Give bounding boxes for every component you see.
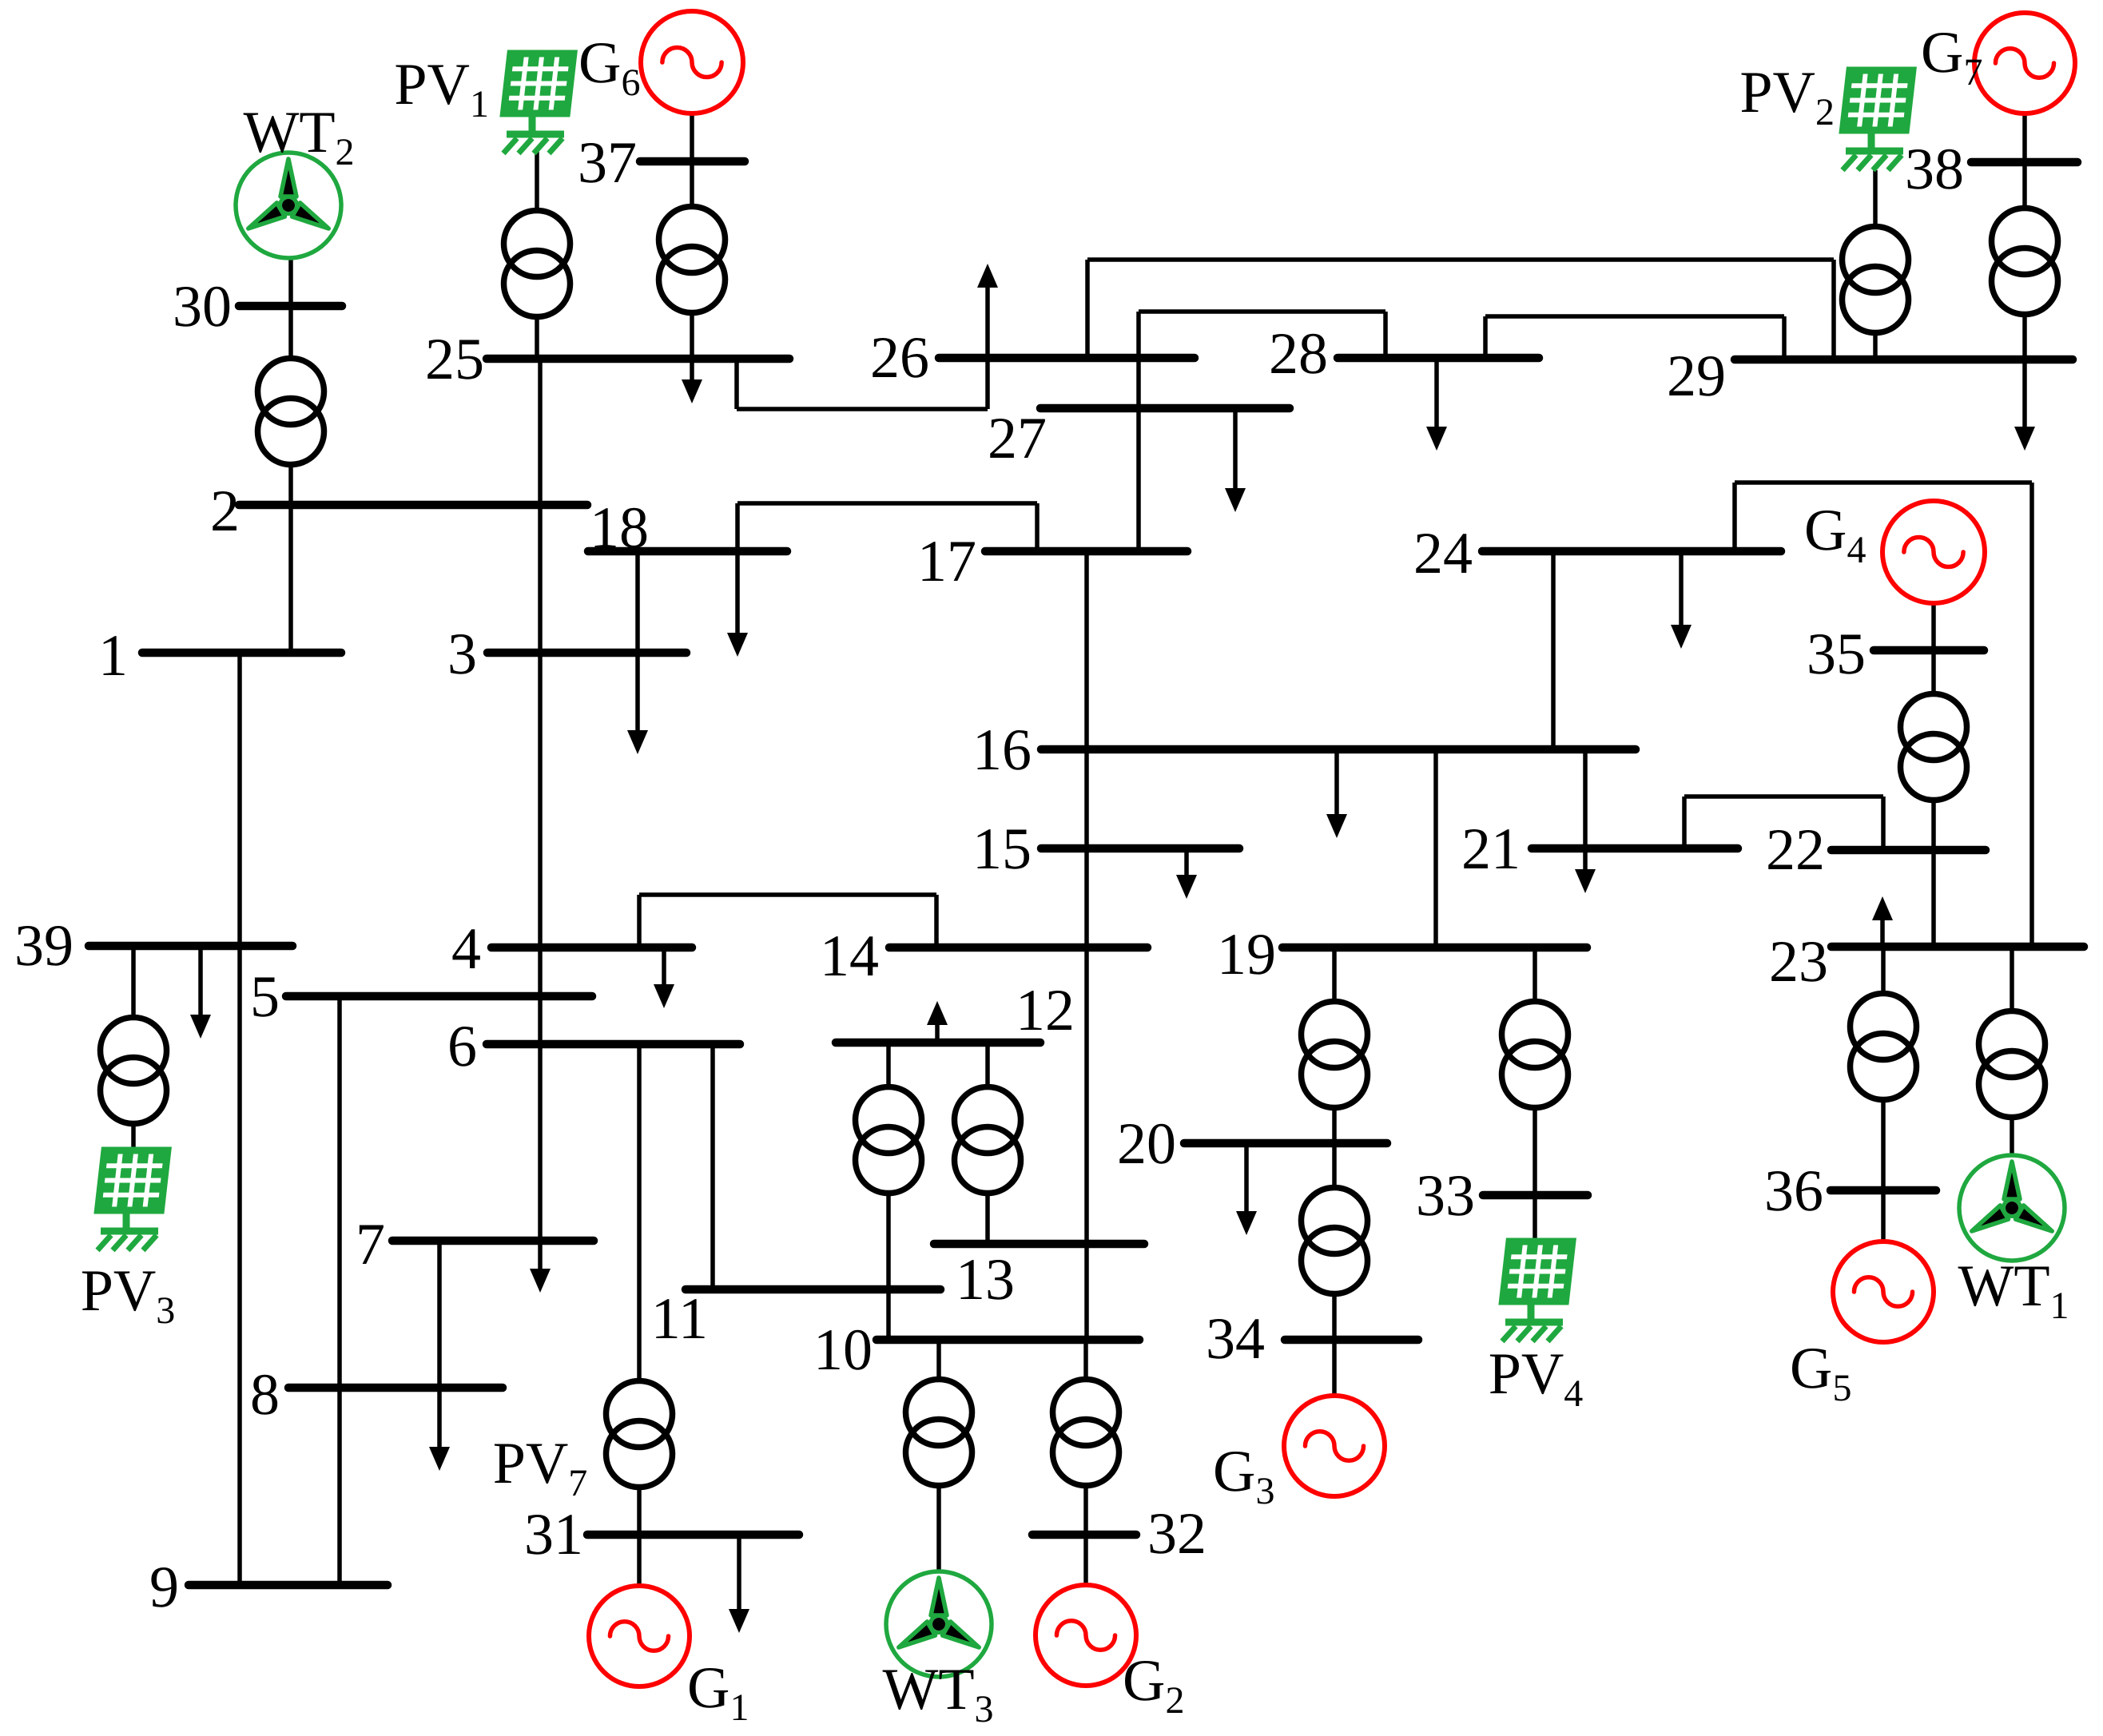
svg-text:G1: G1 (687, 1655, 749, 1729)
svg-text:35: 35 (1807, 622, 1866, 687)
svg-text:13: 13 (956, 1247, 1015, 1313)
svg-text:25: 25 (425, 327, 484, 392)
svg-text:PV3: PV3 (81, 1258, 176, 1332)
svg-text:32: 32 (1147, 1501, 1207, 1567)
svg-text:3: 3 (447, 622, 477, 687)
svg-text:30: 30 (173, 274, 232, 340)
svg-text:15: 15 (972, 816, 1032, 882)
svg-text:36: 36 (1764, 1158, 1823, 1224)
svg-text:21: 21 (1461, 816, 1521, 882)
svg-text:14: 14 (820, 924, 879, 989)
svg-text:9: 9 (149, 1555, 179, 1620)
svg-text:11: 11 (651, 1286, 708, 1352)
svg-text:2: 2 (210, 479, 240, 544)
svg-text:10: 10 (813, 1317, 873, 1383)
svg-text:12: 12 (1016, 978, 1075, 1043)
svg-text:34: 34 (1206, 1306, 1265, 1372)
svg-text:G2: G2 (1123, 1648, 1184, 1722)
svg-text:G6: G6 (578, 30, 640, 104)
svg-text:16: 16 (972, 717, 1032, 783)
svg-text:G4: G4 (1804, 498, 1866, 571)
svg-text:20: 20 (1117, 1111, 1176, 1177)
svg-text:18: 18 (590, 495, 649, 561)
svg-text:G3: G3 (1213, 1439, 1274, 1512)
svg-text:WT2: WT2 (243, 100, 354, 173)
svg-text:WT1: WT1 (1958, 1253, 2069, 1327)
svg-text:19: 19 (1217, 922, 1276, 987)
svg-text:23: 23 (1769, 929, 1828, 995)
svg-text:5: 5 (250, 964, 280, 1030)
svg-text:37: 37 (578, 130, 637, 196)
svg-text:17: 17 (917, 529, 976, 594)
svg-text:PV4: PV4 (1489, 1341, 1584, 1415)
svg-text:6: 6 (447, 1014, 477, 1079)
svg-text:WT3: WT3 (882, 1657, 993, 1730)
svg-text:22: 22 (1766, 817, 1825, 883)
svg-text:24: 24 (1413, 521, 1473, 586)
svg-text:39: 39 (14, 913, 74, 979)
svg-text:4: 4 (451, 916, 481, 982)
svg-text:PV1: PV1 (394, 52, 489, 125)
svg-text:G7: G7 (1921, 20, 1982, 93)
svg-text:G5: G5 (1790, 1336, 1851, 1409)
svg-text:7: 7 (356, 1212, 385, 1277)
svg-text:29: 29 (1667, 344, 1726, 409)
svg-text:27: 27 (988, 406, 1047, 471)
svg-text:PV7: PV7 (493, 1431, 588, 1504)
svg-text:PV2: PV2 (1739, 60, 1835, 133)
svg-text:26: 26 (870, 325, 929, 391)
svg-text:1: 1 (98, 623, 128, 689)
svg-text:33: 33 (1416, 1163, 1475, 1229)
svg-text:8: 8 (250, 1362, 280, 1428)
svg-text:31: 31 (524, 1502, 583, 1567)
svg-text:28: 28 (1269, 321, 1328, 387)
svg-text:38: 38 (1905, 137, 1964, 202)
